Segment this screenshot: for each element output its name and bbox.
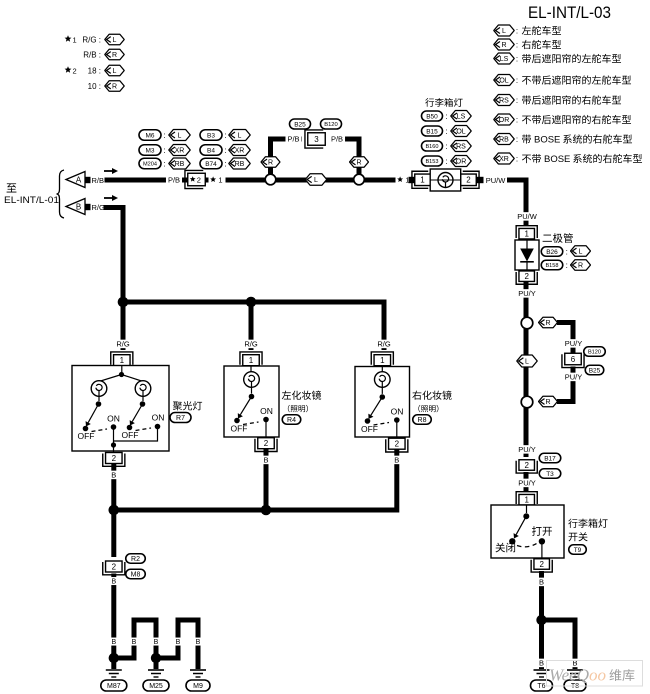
svg-text::: : [516,55,518,64]
svg-text:1: 1 [120,356,125,365]
legend option R [494,39,561,50]
spot lamp pin 1 [111,352,133,366]
connector B153 option [422,156,472,167]
svg-text:B3: B3 [207,132,215,139]
wire label B col4 [174,638,181,646]
direction arrow on R/G [104,195,118,201]
wire label P/B [166,176,182,185]
svg-text:L: L [579,249,583,256]
svg-text:B4: B4 [207,147,215,154]
svg-text:A: A [76,176,82,185]
svg-text:2: 2 [539,560,544,569]
wire label P/B right of 3 [329,135,345,144]
svg-text:B74: B74 [205,161,217,168]
connector id B25 right [585,365,604,375]
svg-text:2: 2 [524,272,529,281]
svg-text:T3: T3 [546,471,554,478]
wire label *1 left [209,174,226,186]
svg-text:R8: R8 [418,417,427,424]
svg-text::: : [516,96,518,105]
junction circle upper right [521,317,533,329]
svg-text:6: 6 [571,355,576,364]
note *1 wire colors [65,34,125,60]
wire label B col1 [110,638,117,646]
inline connector 2 left [103,561,125,575]
svg-text:B50: B50 [426,113,438,120]
option hexagon R right riser [350,157,369,168]
direction arrow on R/B [104,168,118,174]
option hexagon R upper branch [539,317,558,328]
connector id R2 [126,554,146,564]
svg-text:B: B [132,639,137,646]
svg-text:WeeQoo: WeeQoo [549,666,606,685]
inline connector 2 right [516,460,537,473]
brace [57,170,65,218]
svg-text:2: 2 [112,562,117,571]
svg-text:B: B [394,456,399,465]
svg-text:LS: LS [500,56,509,63]
wire label PU/Y below diode [517,289,537,298]
svg-text::: : [445,142,447,151]
svg-text:B17: B17 [544,455,556,462]
svg-text:B: B [539,659,544,668]
svg-text::: : [516,76,518,85]
wire label R/G spot [115,340,131,349]
wire B below vanity R [114,450,397,511]
svg-text:R: R [545,399,550,406]
wire B to grounds [111,574,116,670]
ground M25 [143,670,169,691]
wire PU/Y below diode [524,282,529,319]
diode pin 1 [516,226,537,239]
vanity R pin 1 [371,352,393,366]
svg-text:2: 2 [112,454,117,463]
svg-text:1: 1 [218,176,222,185]
svg-text:M9: M9 [193,683,203,690]
legend option OL [494,75,631,86]
svg-text:B158: B158 [545,263,558,269]
svg-text:RS: RS [456,144,466,151]
svg-text:M25: M25 [149,683,163,690]
label trunk lamp switch [568,519,607,542]
svg-text:B153: B153 [425,159,438,165]
svg-text:M8: M8 [131,572,141,579]
svg-text:R/G: R/G [377,340,391,349]
svg-text:R: R [356,160,361,167]
wire label P/B left of 3 [285,135,301,144]
svg-text:PU/Y: PU/Y [565,339,583,348]
wire ground bridge 2 [156,620,198,669]
svg-text:EL-INT/L-03: EL-INT/L-03 [528,4,611,22]
svg-text::: : [224,131,226,140]
svg-text:B: B [111,639,116,646]
svg-text:R/G :: R/G : [82,36,101,45]
svg-text:2: 2 [197,176,201,185]
option hexagon L on main wire [305,174,327,186]
wire R/G vertical left [104,208,124,303]
label vanity mirror L [282,391,321,413]
inline connector 3 [305,130,325,148]
svg-text:2: 2 [524,461,529,470]
wire label B col2 [130,638,137,646]
wire branch back to main [557,367,573,402]
svg-text::: : [566,247,568,256]
svg-text:RB: RB [235,161,245,168]
svg-text:RB: RB [175,161,185,168]
connector id R4 [282,415,301,425]
svg-text:R2: R2 [131,556,140,563]
svg-text:1: 1 [524,496,529,505]
legend option RB [494,134,632,146]
svg-text:R7: R7 [176,415,185,422]
wire label B col3 [152,638,159,646]
wire label B below switch [538,578,545,587]
diode connector id B158 [541,260,590,271]
svg-text:OL: OL [456,129,465,136]
connector id B120 right [584,347,606,357]
svg-text:LS: LS [457,114,466,121]
diode pin 2 [516,271,537,284]
svg-text:T9: T9 [574,547,582,554]
junction dot M25 [151,653,161,663]
vanity L pin 2 [255,438,277,452]
svg-text:OL: OL [499,78,508,85]
wire branch to connector 6 [557,323,573,355]
note *2 pin numbers [65,65,125,91]
svg-text:R: R [501,42,506,49]
svg-text::: : [224,159,226,168]
legend option L [494,25,561,36]
trunk lamp switch T9 body [491,505,564,558]
connector M6 option [139,130,190,141]
trunk lamp pin 2 [461,171,484,188]
wire label PU/W on riser [517,212,538,221]
wire label PU/Y below 6 [563,373,583,382]
connector id B17 [539,453,561,463]
connector id B25 [290,119,311,129]
svg-text:XR: XR [235,148,245,155]
wire to trunk switch pin 1 [524,472,529,492]
svg-text:3: 3 [314,135,319,144]
svg-text:OR: OR [499,117,510,124]
svg-text:18 :: 18 : [88,67,101,76]
svg-text:1: 1 [73,36,77,45]
ground T6 [531,670,553,691]
svg-text:B: B [263,456,268,465]
svg-text:B26: B26 [546,249,558,256]
ground M87 [101,670,127,691]
svg-text::: : [516,41,518,50]
junction circle M/B harness right [354,174,365,185]
wire label PU/W right of lamp [486,176,507,185]
wire ground bridge 1 [114,620,156,669]
wire B below vanity L [264,449,269,510]
svg-text:L: L [238,133,242,140]
svg-text:M204: M204 [143,162,157,168]
svg-text:ON: ON [260,406,273,416]
svg-text:B: B [176,639,181,646]
svg-text::: : [516,27,518,36]
wire label R/G vanity R [376,340,392,349]
spot lamp R7 body [72,366,169,453]
off-page arrow A [66,172,91,188]
svg-text:OFF: OFF [122,430,139,440]
svg-text:B: B [76,203,81,212]
option hexagon L right riser [517,355,538,367]
svg-text:R: R [112,84,117,91]
junction dot M87 [109,653,119,663]
svg-text:ON: ON [107,414,120,424]
svg-text:B25: B25 [294,121,306,128]
svg-text:2: 2 [73,67,77,76]
wire label B above M87 [110,577,117,585]
svg-text:1: 1 [249,356,254,365]
wire label PU/Y above connector 2 [517,445,537,454]
wire PU/Y to trunk switch [524,408,529,457]
svg-text:B25: B25 [589,367,601,374]
wire B below spot lamp [111,464,116,557]
svg-text::: : [516,155,518,164]
svg-text::: : [516,135,518,144]
svg-text:P/B: P/B [287,135,299,144]
vanity R pin 2 [386,438,408,452]
junction dot left column [118,297,129,308]
svg-text::: : [163,146,165,155]
svg-text::: : [445,112,447,121]
vanity mirror L R4 body [224,366,279,438]
svg-text:OR: OR [456,159,467,166]
svg-text:PU/Y: PU/Y [518,289,536,298]
svg-text:T6: T6 [537,683,545,690]
wire label B spot [110,471,117,480]
svg-text:B15: B15 [426,128,438,135]
svg-text:P/B: P/B [331,135,343,144]
junction circle M/B harness left [265,174,276,185]
ground M9 [186,670,210,691]
svg-text:B: B [111,579,116,586]
svg-text:PU/Y: PU/Y [518,479,536,488]
wire R/G label from B [92,203,106,212]
svg-text:10 :: 10 : [88,82,101,91]
svg-text:L: L [525,359,529,366]
svg-text:PU/Y: PU/Y [518,445,536,454]
inline connector *2 [185,170,205,188]
svg-text::: : [445,157,447,166]
vanity mirror R R8 body [355,367,410,439]
wire label PU/Y above 6 [563,339,583,348]
svg-text:B120: B120 [588,350,601,356]
svg-text:XR: XR [499,156,509,163]
option hexagon R left riser [261,157,280,168]
wire label B vanity R [393,456,400,465]
svg-text:OFF: OFF [231,424,248,434]
svg-text:M3: M3 [145,147,154,154]
svg-text:L: L [178,133,182,140]
svg-text::: : [224,146,226,155]
wire label *1 right [396,174,413,186]
svg-text:P/B: P/B [168,176,180,185]
trunk lamp R5 body [430,169,461,191]
wire label B above T6 [538,659,545,668]
svg-text:R/G: R/G [92,203,106,212]
connector id R8 [413,415,432,425]
svg-text:2: 2 [466,176,471,185]
vanity L pin 1 [240,352,262,366]
svg-text:2: 2 [395,440,400,449]
connector B50 option [422,111,472,122]
wire bypass right riser [329,139,359,175]
wire label PU/Y below connector 2 [517,479,537,488]
svg-text:B120: B120 [324,122,338,128]
legend option XR [494,153,642,165]
svg-text:M6: M6 [145,132,154,139]
legend option OR [494,114,631,125]
svg-text::: : [566,261,568,270]
connector M204 option [139,158,190,169]
svg-text:R: R [545,320,550,327]
svg-text:R: R [268,160,273,167]
svg-text:PU/Y: PU/Y [565,373,583,382]
svg-text:XR: XR [175,148,185,155]
svg-text:ON: ON [391,407,404,417]
svg-text:L: L [314,177,318,184]
svg-text:L: L [502,28,506,35]
wire R/B main horizontal [105,178,400,183]
label vanity mirror R [412,391,451,413]
option hexagon R lower branch [539,396,558,407]
svg-text:BOSE: BOSE [534,135,560,146]
connector id R7 [170,413,191,423]
svg-text:RB: RB [499,137,509,144]
svg-text:BOSE: BOSE [544,154,570,165]
junction dot B left [109,505,120,516]
svg-text:PU/W: PU/W [517,212,538,221]
connector B74 option [200,158,250,169]
off-page arrow B [66,199,91,215]
svg-text:L: L [113,37,117,44]
svg-text:1: 1 [524,230,529,239]
svg-text::: : [516,116,518,125]
connector id M8 [126,569,146,579]
svg-text:B: B [111,471,116,480]
wire main between circles right [524,329,529,397]
spot lamp pin 2 [103,453,125,467]
svg-text::: : [445,127,447,136]
connector B4 option [200,145,250,156]
ground T8 [564,670,586,691]
legend option LS [494,53,621,64]
wire drop to spot lamp [121,299,126,350]
svg-text:R/G: R/G [244,340,258,349]
label trunk lamp 行李箱灯 [425,98,462,107]
svg-text:B: B [154,639,159,646]
diode D body [515,240,539,270]
wire R/B label from A [92,176,105,185]
title EL-INT/L-03 [528,4,611,22]
wire R/G distribution horizontal [123,302,384,350]
watermark [547,661,643,687]
wire label B above T8 [571,659,578,668]
svg-text:R4: R4 [287,417,296,424]
legend option RS [494,95,621,106]
connector B15 option [422,126,472,137]
svg-text:ON: ON [152,413,165,423]
wire label B col5 [194,638,201,646]
svg-text:OFF: OFF [78,431,95,441]
inline connector 6 [562,353,584,367]
wire bypass left riser [271,139,303,175]
svg-text:B: B [539,578,544,587]
svg-text:R/B :: R/B : [83,51,101,60]
svg-text:1: 1 [420,176,425,185]
wire label R/G vanity L [243,340,259,349]
connector B160 option [422,141,472,152]
wire drop to vanity L [249,302,254,350]
trunk switch pin 1 [516,492,537,505]
connector id B120 [321,119,342,129]
svg-text:2: 2 [264,439,269,448]
junction dot B mid [261,505,272,516]
svg-text:B: B [196,639,201,646]
svg-text:OFF: OFF [361,424,378,434]
label spot lamp 聚光灯 [173,401,202,410]
connector id T9 [569,545,587,555]
trunk switch pin 2 [531,559,552,572]
svg-text:R/G: R/G [116,340,130,349]
junction dot right grounds [536,615,546,625]
wire label B vanity L [262,456,269,465]
connector M3 option [139,145,190,156]
svg-text:R: R [578,263,583,270]
svg-text:L: L [113,68,117,75]
wire branch to T8 ground [542,620,576,669]
svg-text::: : [163,131,165,140]
svg-text::: : [163,159,165,168]
svg-text:B160: B160 [425,144,438,150]
label to EL-INT/L-01 [4,183,59,206]
trunk lamp pin 1 [409,171,431,188]
label diode 二极管 [543,233,573,243]
wire B below trunk switch [539,571,544,669]
svg-text:RS: RS [499,98,509,105]
svg-text:R/B: R/B [92,176,105,185]
svg-text:PU/W: PU/W [486,176,507,185]
svg-text:1: 1 [380,356,385,365]
diode connector id B26 [541,246,590,257]
connector id T3 [539,469,561,479]
svg-text:R: R [112,52,117,59]
junction circle lower right [521,396,533,408]
connector B3 option [200,130,250,141]
wire PU/W to right riser [507,180,526,226]
svg-text:EL-INT/L-01: EL-INT/L-01 [4,195,59,206]
junction dot mid column [246,297,257,308]
svg-text:M87: M87 [107,683,121,690]
